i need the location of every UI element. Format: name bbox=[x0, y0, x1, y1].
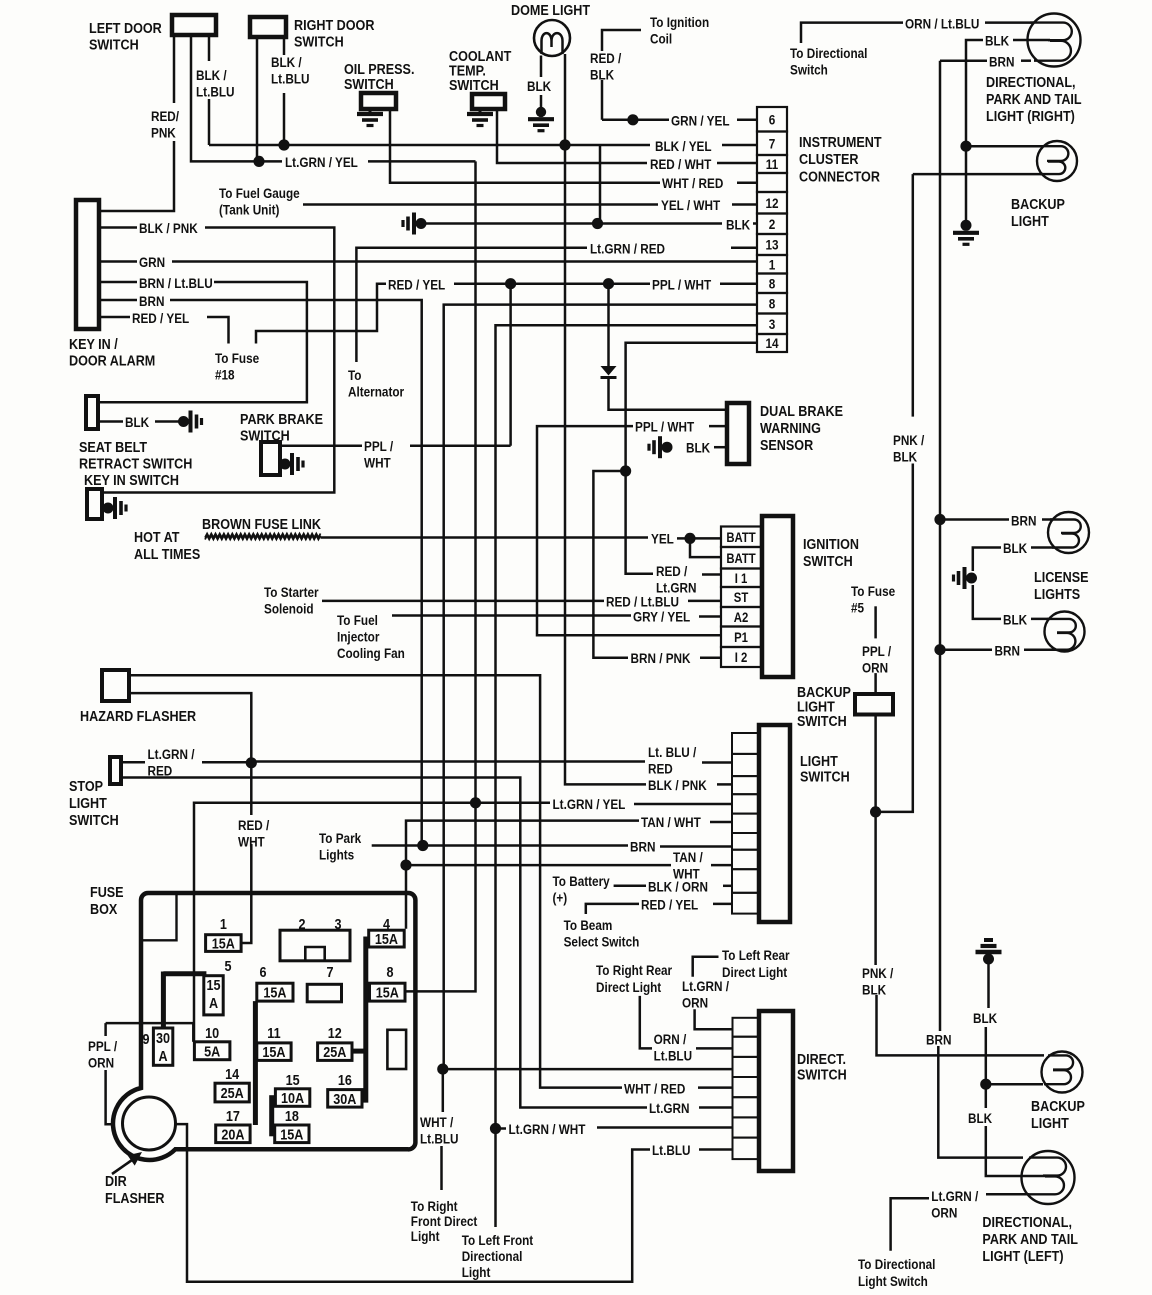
svg-text:Lt.BLU: Lt.BLU bbox=[654, 1048, 692, 1064]
wire BRN lamp lead bbox=[1021, 59, 1031, 62]
svg-text:BRN: BRN bbox=[630, 839, 655, 855]
wire coolant ground stub bbox=[479, 109, 482, 114]
wire BRN right bus bbox=[939, 61, 942, 1031]
wire WHT/Lt.BLU bus tail upper bbox=[442, 1069, 445, 1112]
wire hazard to WHT/RED direct bbox=[129, 675, 622, 1087]
wire right rear bracket to ORN/Lt.BLU bbox=[640, 996, 652, 1049]
svg-text:ORN: ORN bbox=[682, 995, 708, 1011]
svg-text:BLK: BLK bbox=[726, 217, 751, 233]
fuse 4 bbox=[369, 915, 405, 947]
backup light left lamp bbox=[1042, 1052, 1083, 1093]
svg-text:11: 11 bbox=[766, 156, 778, 172]
label dual brake warning sensor bbox=[760, 402, 843, 453]
svg-text:Lt.GRN / WHT: Lt.GRN / WHT bbox=[509, 1121, 586, 1137]
svg-text:2: 2 bbox=[298, 915, 305, 932]
svg-text:HOT AT: HOT AT bbox=[134, 528, 180, 545]
label RED/BLK bbox=[590, 50, 622, 83]
fuse 13 empty box bbox=[387, 1030, 406, 1069]
svg-text:20A: 20A bbox=[221, 1125, 244, 1142]
ground right lights bbox=[953, 220, 979, 245]
svg-text:15A: 15A bbox=[280, 1125, 303, 1142]
svg-text:4: 4 bbox=[383, 915, 390, 932]
label directional left bbox=[982, 1213, 1078, 1264]
junction GRN/YEL bbox=[627, 114, 638, 125]
thick link fuse5 to fuse9 bbox=[163, 971, 206, 976]
label BLK/Lt.BLU left bbox=[196, 67, 234, 100]
svg-text:To Directional: To Directional bbox=[790, 45, 867, 61]
svg-text:BLK / PNK: BLK / PNK bbox=[648, 777, 707, 793]
svg-text:PARK BRAKE: PARK BRAKE bbox=[240, 410, 323, 427]
wire ORN/Lt.BLU to pin 2 bbox=[696, 1047, 733, 1050]
wire right door switch to Lt.GRN/YEL dot bbox=[256, 37, 259, 161]
svg-text:WHT / RED: WHT / RED bbox=[662, 175, 723, 191]
wire BRN to park-lights bus bbox=[170, 300, 422, 846]
junction backup light BLK bbox=[960, 141, 971, 152]
svg-text:To Left Front: To Left Front bbox=[462, 1232, 534, 1248]
svg-text:Lt.GRN / RED: Lt.GRN / RED bbox=[590, 241, 665, 257]
svg-text:10A: 10A bbox=[281, 1089, 304, 1106]
fuse 7 bbox=[307, 963, 341, 1002]
svg-text:SWITCH: SWITCH bbox=[89, 35, 139, 52]
label stop light switch bbox=[69, 777, 119, 828]
wire RED/YEL beam bracket bbox=[586, 904, 639, 914]
svg-text:BLK: BLK bbox=[1003, 612, 1028, 628]
svg-text:INSTRUMENT: INSTRUMENT bbox=[799, 133, 882, 150]
junction backup feed bbox=[870, 806, 881, 817]
junction right door/BLK-YEL bbox=[278, 139, 289, 150]
svg-text:13: 13 bbox=[765, 237, 778, 253]
svg-text:LIGHT: LIGHT bbox=[1011, 212, 1049, 229]
wire right door switch BLK/Lt.BLU upper bbox=[283, 37, 286, 55]
label oil press switch bbox=[344, 60, 414, 92]
wire diode branch upper bbox=[607, 284, 610, 366]
label left door switch bbox=[89, 19, 162, 53]
wire GRN lead bbox=[99, 260, 137, 263]
svg-text:DIRECTIONAL,: DIRECTIONAL, bbox=[986, 73, 1076, 90]
svg-text:Direct Light: Direct Light bbox=[722, 964, 788, 980]
wire left door switch to BLK/YEL line upper bbox=[208, 35, 211, 61]
svg-text:To Fuel Gauge: To Fuel Gauge bbox=[219, 185, 300, 201]
junction BRN bus end bbox=[417, 840, 428, 851]
svg-text:ORN / Lt.BLU: ORN / Lt.BLU bbox=[905, 15, 979, 31]
junction backup left BLK bbox=[980, 1079, 991, 1090]
junction BLK/YEL drop on BLK line bbox=[592, 218, 603, 229]
svg-text:BLK /: BLK / bbox=[271, 54, 302, 70]
label to starter solenoid bbox=[264, 584, 319, 617]
svg-text:LIGHT: LIGHT bbox=[69, 794, 107, 811]
svg-text:Lt.GRN: Lt.GRN bbox=[649, 1100, 689, 1116]
wire to-ignition-coil lower bbox=[601, 80, 604, 120]
svg-text:Lt.GRN /: Lt.GRN / bbox=[148, 746, 195, 762]
wire Lt.BLU to direct pin bbox=[699, 1148, 733, 1151]
wire BLK to ground bus bbox=[966, 40, 983, 220]
label PNK/BLK lower bbox=[862, 965, 894, 998]
svg-text:A: A bbox=[158, 1047, 167, 1064]
wire BLK license lower bbox=[973, 585, 1001, 619]
fuse box corner notch bbox=[141, 893, 177, 940]
key-in switch bbox=[87, 489, 102, 519]
wire BLK to ground bbox=[155, 420, 179, 423]
svg-text:3: 3 bbox=[769, 316, 776, 332]
wire to-fuse5 stub bbox=[874, 606, 877, 638]
wire WHT/Lt.BLU to direct pin3 bbox=[443, 1068, 733, 1071]
svg-text:WHT / RED: WHT / RED bbox=[624, 1081, 685, 1097]
svg-text:15: 15 bbox=[206, 976, 220, 993]
thick bus fuse 15-18 bbox=[269, 1095, 274, 1136]
junction Lt.GRN/YEL bus tap bbox=[470, 797, 481, 808]
svg-text:A: A bbox=[209, 994, 218, 1011]
wire park brake PPL/WHT bus bbox=[509, 284, 512, 446]
instrument cluster connector bbox=[757, 107, 787, 352]
fuse 14 bbox=[215, 1065, 249, 1102]
label to ignition coil bbox=[650, 14, 709, 47]
fuse 9 box bbox=[142, 1028, 172, 1065]
wire Lt.BLU/RED to pin bbox=[702, 761, 732, 764]
svg-text:BLK: BLK bbox=[862, 982, 887, 998]
label dir flasher bbox=[105, 1172, 164, 1206]
wire PNK/BLK to backup left lamp bbox=[877, 995, 1045, 1055]
svg-text:BLK / PNK: BLK / PNK bbox=[139, 220, 198, 236]
wire BLK left bus lower bbox=[986, 1126, 1045, 1176]
label RED/Lt.GRN bbox=[656, 563, 696, 596]
wire fuel gauge to YEL/WHT line bbox=[303, 203, 658, 206]
svg-text:I 1: I 1 bbox=[735, 571, 748, 586]
svg-text:DOME LIGHT: DOME LIGHT bbox=[511, 1, 591, 18]
label fuse box bbox=[90, 883, 124, 917]
wire GRN to pin 1 bbox=[172, 260, 757, 263]
wire Lt.GRN/WHT lead bbox=[496, 1127, 507, 1130]
svg-text:Cooling Fan: Cooling Fan bbox=[337, 645, 405, 661]
wire BRN to directional left bbox=[938, 1046, 1023, 1158]
svg-text:RED: RED bbox=[648, 761, 673, 777]
svg-text:To: To bbox=[348, 367, 362, 383]
wire BLK/YEL net horizontal bbox=[209, 144, 650, 147]
svg-text:BROWN FUSE LINK: BROWN FUSE LINK bbox=[202, 515, 321, 532]
junction dome light vertical on BLK/YEL bbox=[559, 139, 570, 150]
svg-text:Coil: Coil bbox=[650, 31, 672, 47]
dome light lamp bbox=[534, 20, 570, 56]
light switch pins bbox=[732, 733, 759, 914]
svg-text:To Right: To Right bbox=[411, 1198, 458, 1214]
svg-text:PARK AND TAIL: PARK AND TAIL bbox=[986, 90, 1082, 107]
wire BLK/YEL to pin 7 bbox=[722, 144, 757, 147]
label to fuse 18 bbox=[215, 350, 259, 383]
svg-text:PARK AND TAIL: PARK AND TAIL bbox=[982, 1230, 1078, 1247]
svg-text:TAN /: TAN / bbox=[673, 849, 703, 865]
wire BRN license lower lead bbox=[940, 648, 992, 651]
svg-text:To Fuse: To Fuse bbox=[215, 350, 259, 366]
wire PNK/BLK bus upper bbox=[912, 174, 915, 417]
ignition switch pins bbox=[721, 527, 761, 668]
wire backup left lamp lead bbox=[986, 1083, 1043, 1086]
svg-text:7: 7 bbox=[326, 963, 333, 980]
svg-text:Lights: Lights bbox=[319, 847, 354, 863]
wire branch to I2 BRN/PNK bbox=[593, 471, 628, 658]
svg-text:Lt.BLU: Lt.BLU bbox=[271, 71, 309, 87]
wire YEL to BATT1 bbox=[690, 537, 721, 540]
wire BRN/Lt.BLU to seat belt switch bbox=[98, 282, 307, 402]
svg-text:STOP: STOP bbox=[69, 777, 103, 794]
svg-text:PPL /: PPL / bbox=[88, 1038, 118, 1054]
junction diode branch bbox=[603, 278, 614, 289]
wire oil press to WHT/RED line bbox=[390, 109, 660, 183]
label light switch bbox=[800, 752, 850, 785]
wire WHT/RED to blank pin bbox=[737, 182, 757, 185]
svg-text:RETRACT SWITCH: RETRACT SWITCH bbox=[79, 454, 192, 471]
svg-text:BRN / Lt.BLU: BRN / Lt.BLU bbox=[139, 275, 213, 291]
svg-text:BATT: BATT bbox=[726, 551, 756, 566]
svg-text:Solenoid: Solenoid bbox=[264, 601, 314, 617]
svg-text:BACKUP: BACKUP bbox=[1031, 1097, 1085, 1114]
light switch body bbox=[759, 725, 790, 922]
label Lt.GRN/RED stop bbox=[148, 746, 195, 779]
wire TAN/WHT line bbox=[406, 821, 639, 929]
svg-text:ORN /: ORN / bbox=[654, 1031, 687, 1047]
label WHT/Lt.BLU bbox=[420, 1114, 458, 1147]
svg-text:10: 10 bbox=[205, 1024, 219, 1041]
wire BLK net to cluster bbox=[426, 222, 722, 225]
svg-text:CLUSTER: CLUSTER bbox=[799, 150, 858, 167]
svg-text:5: 5 bbox=[224, 957, 231, 974]
svg-text:To Directional: To Directional bbox=[858, 1256, 935, 1272]
wire BRN to bus bbox=[940, 59, 987, 62]
svg-text:BLK: BLK bbox=[973, 1010, 998, 1026]
label license lights bbox=[1034, 568, 1089, 602]
wire PPL/ORN vertical upper bbox=[104, 1023, 107, 1036]
wire to-ignition-coil pointer bbox=[602, 30, 641, 51]
svg-text:Lt.GRN / YEL: Lt.GRN / YEL bbox=[553, 796, 626, 812]
label hot at all times bbox=[134, 528, 200, 562]
svg-text:18: 18 bbox=[285, 1107, 299, 1124]
svg-text:SWITCH: SWITCH bbox=[803, 552, 853, 569]
stop light switch bbox=[110, 757, 121, 784]
fuse 15 bbox=[275, 1071, 309, 1106]
svg-text:SWITCH: SWITCH bbox=[69, 811, 119, 828]
svg-text:KEY IN SWITCH: KEY IN SWITCH bbox=[84, 471, 179, 488]
wire Lt.GRN/RED to dot bbox=[202, 761, 252, 764]
junction TAN/WHT2 tap bbox=[400, 860, 411, 871]
fuse 18 bbox=[275, 1107, 309, 1143]
svg-text:LIGHTS: LIGHTS bbox=[1034, 585, 1080, 602]
label TAN/WHT2 bbox=[673, 849, 703, 882]
svg-text:9: 9 bbox=[142, 1030, 149, 1047]
svg-text:Lt. BLU /: Lt. BLU / bbox=[648, 744, 697, 760]
svg-text:RED / YEL: RED / YEL bbox=[388, 277, 445, 293]
label to alternator bbox=[348, 367, 404, 400]
thick stub fuse 12 bbox=[352, 1049, 366, 1054]
svg-text:PPL /: PPL / bbox=[862, 643, 892, 659]
wire PPL/ORN drop to fuse 10 bbox=[192, 1023, 195, 1042]
svg-text:BLK: BLK bbox=[125, 414, 150, 430]
wire oil press ground stub bbox=[369, 109, 372, 114]
wire park lights BRN line bbox=[372, 844, 628, 847]
svg-text:14: 14 bbox=[765, 335, 779, 351]
svg-text:HAZARD FLASHER: HAZARD FLASHER bbox=[80, 707, 196, 724]
label to left rear direct light bbox=[722, 947, 790, 980]
svg-text:3: 3 bbox=[334, 915, 341, 932]
svg-text:Directional: Directional bbox=[462, 1248, 523, 1264]
svg-text:BLK: BLK bbox=[686, 440, 711, 456]
fuse 5 box bbox=[204, 957, 232, 1015]
wire RED/WHT to pin 11 bbox=[717, 162, 757, 165]
junction ignition feed split bbox=[620, 465, 631, 476]
fuse 11 bbox=[257, 1024, 291, 1060]
svg-text:Lt.GRN /: Lt.GRN / bbox=[931, 1188, 978, 1204]
svg-text:(Tank Unit): (Tank Unit) bbox=[219, 202, 279, 218]
svg-text:DUAL BRAKE: DUAL BRAKE bbox=[760, 402, 843, 419]
svg-text:YEL / WHT: YEL / WHT bbox=[661, 197, 720, 213]
svg-text:CONNECTOR: CONNECTOR bbox=[799, 167, 880, 184]
fusible link (brown fuse link) bbox=[205, 534, 321, 538]
wire left door switch to BLK/YEL line lower bbox=[208, 99, 211, 145]
svg-text:BATT: BATT bbox=[726, 530, 756, 545]
label to park lights bbox=[319, 830, 362, 863]
directional park tail left lamp bbox=[1022, 1151, 1075, 1204]
svg-text:Direct Light: Direct Light bbox=[596, 979, 662, 995]
wire BRN/Lt.BLU lead bbox=[99, 281, 137, 284]
svg-text:FLASHER: FLASHER bbox=[105, 1189, 164, 1206]
wire Lt.GRN/YEL to pin 4 bbox=[634, 803, 732, 806]
wire BRN lower to lamp bbox=[1024, 648, 1056, 651]
svg-text:RED/: RED/ bbox=[151, 108, 179, 124]
svg-text:SWITCH: SWITCH bbox=[449, 76, 499, 93]
junction Lt.GRN/WHT tap bbox=[490, 1123, 501, 1134]
svg-text:15A: 15A bbox=[376, 984, 399, 1001]
wire PPL/ORN vertical lower bbox=[106, 1070, 114, 1124]
svg-text:To Starter: To Starter bbox=[264, 584, 319, 600]
wire BRN to pin 6 bbox=[660, 845, 732, 848]
wire RED/YEL-PPL/WHT line bbox=[454, 282, 650, 285]
ground coolant temp switch bbox=[467, 114, 493, 126]
svg-text:WARNING: WARNING bbox=[760, 419, 821, 436]
wire pin14 to ignition I1 bbox=[626, 343, 757, 574]
svg-text:GRN / YEL: GRN / YEL bbox=[671, 113, 730, 129]
svg-text:15: 15 bbox=[286, 1071, 300, 1088]
svg-text:ST: ST bbox=[734, 590, 749, 605]
license light upper lamp bbox=[1048, 512, 1089, 553]
wire Lt.BLU/RED line to light switch bbox=[251, 760, 645, 763]
svg-text:ALL TIMES: ALL TIMES bbox=[134, 545, 200, 562]
svg-text:#5: #5 bbox=[851, 600, 864, 616]
fuse 1 bbox=[206, 915, 242, 952]
wire dir flasher to Lt.BLU loop bbox=[176, 1124, 651, 1282]
svg-text:Light: Light bbox=[462, 1264, 491, 1280]
junction hazard/stop Lt.GRN-RED bbox=[246, 757, 257, 768]
wire TAN/WHT2 to pin 7 bbox=[711, 864, 732, 867]
wire dome light feed vertical bus bbox=[565, 54, 646, 784]
svg-text:RED /: RED / bbox=[590, 50, 622, 66]
wire backup right lamp lower lead bbox=[913, 173, 1043, 176]
svg-text:To Battery: To Battery bbox=[553, 873, 611, 889]
svg-text:5A: 5A bbox=[204, 1042, 220, 1059]
svg-text:6: 6 bbox=[769, 111, 776, 127]
svg-text:ORN: ORN bbox=[88, 1055, 114, 1071]
svg-text:8: 8 bbox=[769, 275, 776, 291]
svg-text:WHT: WHT bbox=[364, 455, 391, 471]
wire sensor BLK lead bbox=[714, 446, 727, 449]
wire park brake PPL/WHT line bbox=[280, 445, 362, 448]
svg-text:To Fuel: To Fuel bbox=[337, 612, 378, 628]
svg-text:15A: 15A bbox=[262, 1043, 285, 1060]
label backup light left bbox=[1031, 1097, 1085, 1131]
ground dual brake sensor bbox=[649, 436, 673, 458]
svg-text:PNK: PNK bbox=[151, 125, 176, 141]
label Lt.GRN/ORN bottom bbox=[931, 1188, 978, 1221]
label Lt.GRN/ORN direct bbox=[682, 978, 729, 1011]
svg-text:WHT /: WHT / bbox=[420, 1114, 454, 1130]
label to fuel injector cooling fan bbox=[337, 612, 405, 661]
svg-text:YEL: YEL bbox=[651, 531, 674, 547]
park brake switch bbox=[261, 442, 280, 475]
wire BLK/PNK lead bbox=[99, 226, 137, 229]
fuse 2-3 block bbox=[280, 930, 350, 961]
wire diode branch lower to sensor bbox=[609, 378, 728, 410]
svg-text:SWITCH: SWITCH bbox=[800, 767, 850, 784]
svg-text:25A: 25A bbox=[221, 1084, 244, 1101]
svg-text:1: 1 bbox=[769, 256, 776, 272]
wire GRN/YEL to pin 6 bbox=[737, 119, 757, 122]
fuse 17 bbox=[216, 1107, 250, 1143]
svg-text:DIRECTIONAL,: DIRECTIONAL, bbox=[982, 1213, 1072, 1230]
svg-text:A2: A2 bbox=[734, 610, 749, 625]
svg-text:To Fuse: To Fuse bbox=[851, 583, 895, 599]
svg-text:BOX: BOX bbox=[90, 900, 118, 917]
svg-text:8: 8 bbox=[769, 295, 776, 311]
junction BRN license lower bbox=[934, 644, 945, 655]
wire GRY/YEL to A2 bbox=[699, 615, 721, 618]
wire coolant to RED/WHT line bbox=[497, 109, 647, 163]
wire BLK to pin 2 bbox=[753, 222, 757, 225]
left door switch bbox=[172, 15, 216, 35]
label PPL/WHT park bbox=[364, 438, 394, 471]
hazard flasher bbox=[102, 670, 129, 701]
wire sensor PPL/WHT lead bbox=[709, 425, 727, 428]
wire GRY/YEL line bbox=[392, 614, 631, 617]
svg-text:To Ignition: To Ignition bbox=[650, 14, 709, 30]
wire PPL/ORN to switch bbox=[874, 673, 877, 694]
label backup light switch bbox=[797, 683, 851, 729]
svg-text:IGNITION: IGNITION bbox=[803, 535, 859, 552]
wire PPL/ORN horizontal bbox=[106, 1022, 194, 1025]
wire WHT/Lt.BLU bus tail lower bbox=[440, 1146, 443, 1190]
wire RED/YEL to pin 9 bbox=[713, 903, 732, 906]
svg-text:RED /: RED / bbox=[238, 817, 270, 833]
junction park brake bus on RED/YEL bbox=[505, 278, 516, 289]
svg-text:BLK / ORN: BLK / ORN bbox=[648, 879, 708, 895]
svg-text:To Right Rear: To Right Rear bbox=[596, 962, 672, 978]
svg-text:RED / Lt.BLU: RED / Lt.BLU bbox=[606, 594, 679, 610]
svg-text:PPL / WHT: PPL / WHT bbox=[635, 419, 694, 435]
wire BLK/ORN to pin 8 bbox=[723, 885, 732, 888]
wire backup switch output bbox=[874, 715, 877, 966]
svg-text:FUSE: FUSE bbox=[90, 883, 124, 900]
label RED/PNK bbox=[151, 108, 179, 141]
svg-text:To Left Rear: To Left Rear bbox=[722, 947, 790, 963]
wire ORN/Lt.BLU pointer bbox=[801, 23, 903, 43]
wire RED/PNK left door switch upper bbox=[173, 35, 176, 103]
wire GRN/YEL from coil branch bbox=[602, 119, 669, 122]
oil pressure switch bbox=[361, 93, 396, 109]
wire BLK left bus upper bbox=[987, 959, 990, 1008]
wire YEL to dot bbox=[677, 537, 688, 540]
label coolant temp switch bbox=[449, 47, 512, 93]
wire ORN/Lt.BLU to directional lamp bbox=[985, 21, 1034, 24]
svg-text:Switch: Switch bbox=[790, 62, 828, 78]
directional park tail right lamp bbox=[1028, 14, 1081, 67]
svg-text:Lt.BLU: Lt.BLU bbox=[652, 1142, 690, 1158]
label to right rear direct light bbox=[596, 962, 672, 995]
label Lt.BLU/RED bbox=[648, 744, 697, 777]
